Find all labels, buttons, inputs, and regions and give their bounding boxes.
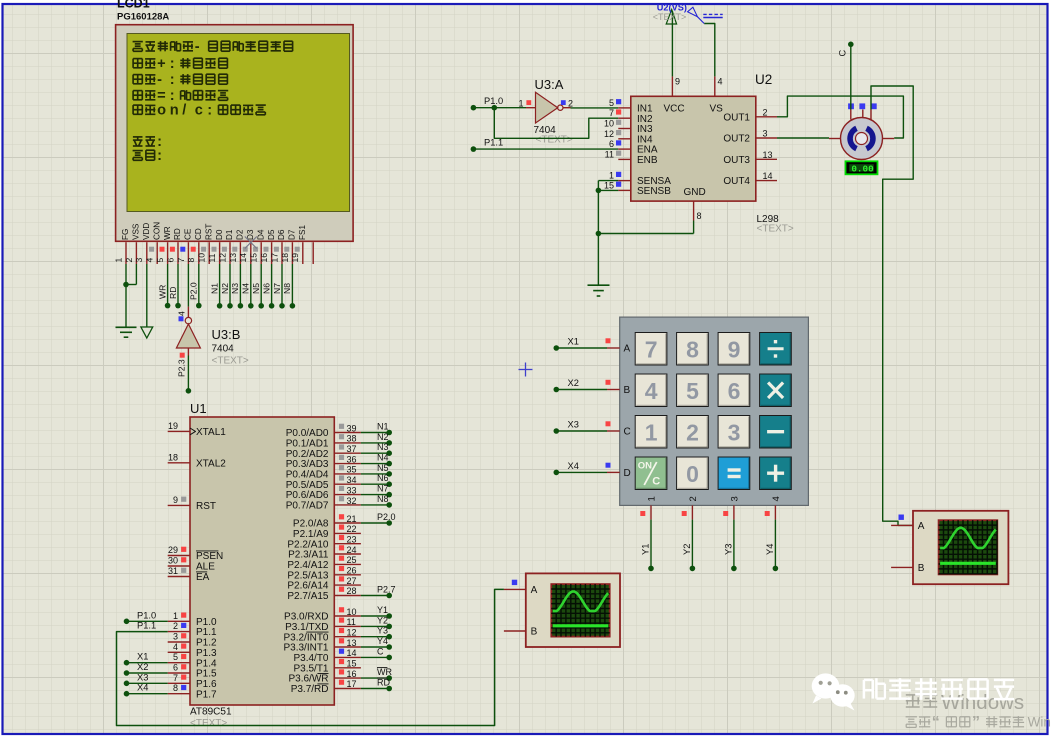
svg-text:WR: WR bbox=[377, 667, 392, 677]
wire X3 net at U1 bbox=[124, 672, 168, 686]
wire VS to power flag bbox=[704, 24, 715, 77]
svg-text::: : bbox=[207, 103, 212, 119]
LCD pin 8 CD bbox=[186, 228, 203, 264]
LCD pin14 no-connect X bbox=[245, 237, 257, 249]
U2 pin 2 OUT1 bbox=[723, 107, 777, 123]
svg-text:+: + bbox=[157, 56, 166, 72]
U1 pin 10 P3.0/RXD bbox=[284, 607, 361, 623]
svg-text:A: A bbox=[918, 521, 925, 532]
LCD pin 12 D1 bbox=[217, 229, 234, 264]
svg-text:X2: X2 bbox=[568, 378, 579, 388]
U3:B pin 4 number bbox=[177, 311, 187, 321]
svg-text:”: ” bbox=[972, 714, 980, 731]
svg-text:2: 2 bbox=[124, 258, 134, 263]
svg-text:6: 6 bbox=[173, 663, 178, 673]
U1 pin 28 P2.7/A15 bbox=[287, 586, 361, 602]
svg-text:Win: Win bbox=[1028, 715, 1051, 730]
svg-text:P2.3/A11: P2.3/A11 bbox=[288, 550, 329, 561]
svg-text:D7: D7 bbox=[288, 229, 297, 240]
svg-text:Y3: Y3 bbox=[377, 626, 388, 636]
svg-text:B: B bbox=[918, 563, 925, 574]
wire X1 net at U1 bbox=[124, 652, 168, 666]
motor floating squares bbox=[848, 103, 877, 109]
U1 pin 19 XTAL1 bbox=[168, 421, 227, 438]
svg-text:VSS: VSS bbox=[132, 223, 141, 240]
U1 pin 25 P2.4/A12 bbox=[287, 555, 361, 571]
svg-text:2: 2 bbox=[688, 496, 699, 501]
svg-text:4: 4 bbox=[645, 378, 658, 404]
svg-text:P3.6/WR: P3.6/WR bbox=[288, 674, 328, 685]
U1 pin 35 P0.4/AD4 bbox=[286, 465, 361, 481]
svg-text:34: 34 bbox=[347, 475, 357, 485]
wire LCD pins1+2 to ground bbox=[123, 264, 136, 327]
svg-text:P3.0/RXD: P3.0/RXD bbox=[284, 612, 328, 623]
svg-text:14: 14 bbox=[763, 171, 773, 181]
svg-text:39: 39 bbox=[347, 423, 357, 433]
svg-text:4: 4 bbox=[173, 642, 178, 652]
svg-text:17: 17 bbox=[269, 253, 279, 263]
U2 pin 6 ENA bbox=[609, 139, 658, 156]
svg-text:P1.1: P1.1 bbox=[484, 138, 503, 148]
svg-text:P1.6: P1.6 bbox=[196, 679, 217, 690]
svg-text:30: 30 bbox=[168, 556, 178, 566]
svg-text:24: 24 bbox=[347, 545, 357, 555]
svg-text:8: 8 bbox=[686, 336, 699, 362]
wire OUT1 to motor right bbox=[777, 96, 903, 138]
svg-text:4: 4 bbox=[145, 258, 155, 263]
svg-text:Y2: Y2 bbox=[682, 544, 692, 555]
U1 pin 23 P2.2/A10 bbox=[287, 535, 361, 551]
svg-text:P2.0: P2.0 bbox=[377, 512, 396, 522]
svg-text:P3.4/T0: P3.4/T0 bbox=[293, 653, 328, 664]
svg-text:6: 6 bbox=[165, 258, 175, 263]
key 4 bbox=[635, 374, 667, 407]
svg-text:29: 29 bbox=[168, 545, 178, 555]
op U3:A 7404 inverter bbox=[526, 92, 571, 123]
wire N1 net from LCD pin11 bbox=[209, 264, 222, 309]
wire P1.0 net at U1 bbox=[124, 610, 168, 624]
svg-text:27: 27 bbox=[347, 576, 357, 586]
svg-text:RST: RST bbox=[204, 224, 213, 240]
key minus bbox=[760, 416, 792, 449]
svg-text:6: 6 bbox=[609, 139, 614, 149]
svg-text:5: 5 bbox=[609, 98, 614, 108]
svg-text::: : bbox=[170, 72, 175, 88]
svg-text:6: 6 bbox=[728, 378, 741, 404]
svg-text:EA: EA bbox=[196, 572, 210, 583]
key 0 bbox=[677, 457, 709, 490]
svg-text:19: 19 bbox=[290, 253, 300, 263]
svg-text:P2.0/A8: P2.0/A8 bbox=[293, 519, 329, 530]
svg-text:X1: X1 bbox=[568, 337, 579, 347]
svg-text:N7: N7 bbox=[272, 283, 282, 294]
oscilloscope 1 bbox=[504, 573, 620, 647]
U1 pin 34 P0.5/AD5 bbox=[286, 475, 361, 491]
svg-text:9: 9 bbox=[728, 336, 741, 362]
LCD pin 14 D3 bbox=[238, 229, 255, 264]
keypad col label 4 bbox=[771, 496, 782, 501]
svg-text:WR: WR bbox=[157, 285, 167, 299]
svg-text:2: 2 bbox=[173, 621, 178, 631]
wire Y1 net at U1 bbox=[361, 605, 392, 619]
U1 labels bbox=[190, 401, 232, 729]
svg-text:P2.4/A12: P2.4/A12 bbox=[287, 560, 329, 571]
key 9 bbox=[718, 333, 750, 366]
svg-text::: : bbox=[157, 148, 162, 164]
svg-text:OUT4: OUT4 bbox=[723, 176, 750, 187]
wire WR net at U1 bbox=[361, 667, 393, 681]
LCD text line1 bbox=[133, 39, 293, 55]
svg-text:1: 1 bbox=[609, 171, 614, 181]
wire P1.0 net to U3:A and IN2 bbox=[471, 96, 619, 138]
svg-text:1: 1 bbox=[645, 419, 658, 445]
svg-text:16: 16 bbox=[347, 669, 357, 679]
driver U2 L298 body bbox=[631, 96, 756, 201]
svg-text:RD: RD bbox=[377, 678, 390, 688]
LCD pin 17 D6 bbox=[269, 229, 286, 264]
svg-text:D5: D5 bbox=[267, 229, 276, 240]
U3:A labels bbox=[534, 77, 573, 146]
ground symbol under LCD bbox=[116, 327, 137, 337]
op U3:B 7404 inverter bbox=[176, 307, 200, 356]
wire N4 net from LCD pin14 bbox=[241, 264, 254, 309]
svg-text:D1: D1 bbox=[225, 229, 234, 240]
wire C net at U1 bbox=[361, 646, 392, 660]
svg-text:RST: RST bbox=[196, 501, 216, 512]
U1 pin 15 P3.5/T1 bbox=[293, 659, 360, 675]
LCD text line4 bbox=[133, 88, 228, 104]
svg-text:-: - bbox=[195, 39, 200, 55]
LCD LCD1 labels bbox=[117, 0, 169, 35]
U2 pin 11 ENB bbox=[605, 149, 658, 166]
svg-text:ENB: ENB bbox=[637, 155, 658, 166]
wire X4 net to keypad row D bbox=[554, 461, 620, 475]
wire N5 net at U1 bbox=[361, 463, 392, 477]
svg-text:c: c bbox=[195, 103, 203, 119]
svg-text:X3: X3 bbox=[568, 420, 579, 430]
svg-text:VCC: VCC bbox=[664, 104, 685, 115]
svg-text:U3:A: U3:A bbox=[535, 77, 564, 92]
svg-text:9: 9 bbox=[173, 495, 178, 505]
svg-text:13: 13 bbox=[347, 638, 357, 648]
svg-text:WR: WR bbox=[163, 226, 172, 240]
svg-text:RD: RD bbox=[168, 287, 178, 299]
svg-text:14: 14 bbox=[347, 648, 357, 658]
svg-text:32: 32 bbox=[347, 496, 357, 506]
LCD pin nc bbox=[312, 242, 314, 264]
wire N8 net at U1 bbox=[361, 494, 392, 508]
U1 pin 16 P3.6/WR bbox=[288, 669, 360, 685]
svg-text:12: 12 bbox=[217, 253, 227, 263]
svg-text:P2.6/A14: P2.6/A14 bbox=[287, 581, 329, 592]
svg-text:3: 3 bbox=[729, 496, 740, 501]
svg-text:B: B bbox=[624, 385, 631, 396]
wire X1 net to keypad row A bbox=[554, 337, 620, 351]
U2 pin 7 IN2 bbox=[609, 108, 653, 125]
svg-text:C: C bbox=[377, 646, 384, 656]
svg-text:U1: U1 bbox=[190, 401, 207, 416]
keypad col label 2 bbox=[688, 496, 699, 501]
svg-text:N4: N4 bbox=[377, 453, 389, 463]
U2 pin 4 VS bbox=[710, 76, 724, 114]
oscilloscope 2 bbox=[891, 511, 1008, 584]
svg-text:10: 10 bbox=[347, 607, 357, 617]
U2 pin 12 IN4 bbox=[604, 129, 653, 146]
U2 pin 8 GND bbox=[684, 187, 706, 221]
keypad row label C bbox=[624, 427, 631, 438]
input terminal triangle bbox=[141, 327, 153, 338]
ground symbol under L298 bbox=[588, 285, 610, 296]
LCD pin 2 VSS bbox=[124, 223, 141, 264]
wire N3 net at U1 bbox=[361, 442, 392, 456]
svg-text:VS: VS bbox=[710, 104, 724, 115]
svg-text:19: 19 bbox=[168, 421, 178, 431]
svg-text:P1.3: P1.3 bbox=[196, 648, 217, 659]
U1 pin 31 EA bbox=[168, 566, 210, 583]
svg-text:15: 15 bbox=[249, 253, 259, 263]
LCD text line2 bbox=[133, 56, 227, 72]
svg-text:<TEXT>: <TEXT> bbox=[190, 718, 227, 729]
svg-text:XTAL2: XTAL2 bbox=[196, 458, 226, 469]
svg-text:FS1: FS1 bbox=[298, 225, 307, 240]
svg-text:Y1: Y1 bbox=[377, 605, 388, 615]
LCD pin 5 WR bbox=[155, 224, 172, 264]
U1 pin 38 P0.1/AD1 bbox=[286, 434, 361, 450]
power terminal U2(VS) bbox=[653, 2, 687, 24]
svg-text:P0.0/AD0: P0.0/AD0 bbox=[286, 428, 329, 439]
svg-text:A: A bbox=[531, 585, 538, 596]
svg-text:PSEN: PSEN bbox=[196, 551, 223, 562]
wire N2 net from LCD pin12 bbox=[220, 264, 233, 309]
svg-text:7: 7 bbox=[609, 108, 614, 118]
svg-text:13: 13 bbox=[763, 150, 773, 160]
svg-text:38: 38 bbox=[347, 434, 357, 444]
svg-text:<TEXT>: <TEXT> bbox=[536, 135, 573, 146]
svg-text:OUT1: OUT1 bbox=[723, 112, 750, 123]
svg-text:<TEXT>: <TEXT> bbox=[212, 356, 249, 367]
svg-text:P0.2/AD2: P0.2/AD2 bbox=[286, 449, 329, 460]
svg-text:7404: 7404 bbox=[212, 344, 235, 355]
LCD pin 6 RD bbox=[165, 224, 182, 264]
U1 pin 11 P3.1/TXD bbox=[285, 617, 361, 633]
wire Y3 net from keypad col 3 bbox=[723, 505, 737, 571]
svg-text:8: 8 bbox=[697, 211, 702, 221]
svg-text:Y3: Y3 bbox=[723, 544, 733, 555]
U2 pin 1 SENSA bbox=[609, 171, 671, 188]
svg-text:X1: X1 bbox=[137, 652, 148, 662]
U2 pin 15 SENSB bbox=[604, 180, 671, 197]
svg-text:D2: D2 bbox=[236, 229, 245, 240]
key 5 bbox=[677, 374, 709, 407]
svg-text:N8: N8 bbox=[377, 494, 389, 504]
LCD text line3 bbox=[133, 72, 227, 88]
wire C net to motor top bbox=[838, 42, 854, 110]
svg-text:Y1: Y1 bbox=[640, 544, 650, 555]
wire X2 net to keypad row B bbox=[554, 378, 620, 392]
U1 pin 7 P1.6 bbox=[168, 673, 217, 690]
U1 pin 30 ALE bbox=[168, 556, 216, 573]
motor brushes bbox=[850, 128, 873, 148]
svg-text:P1.1: P1.1 bbox=[137, 621, 156, 631]
svg-text:X4: X4 bbox=[137, 683, 148, 693]
windows activation watermark line1 bbox=[906, 691, 1024, 714]
key multiply bbox=[760, 374, 792, 407]
svg-text:U3:B: U3:B bbox=[212, 327, 241, 342]
svg-text:“: “ bbox=[932, 714, 940, 731]
svg-text:2: 2 bbox=[763, 107, 768, 117]
LCD pin 19 FS1 bbox=[290, 225, 307, 264]
motor shaft bbox=[856, 133, 868, 145]
svg-text:ON: ON bbox=[638, 461, 652, 472]
LCD text line5 bbox=[133, 103, 266, 119]
key 1 bbox=[635, 416, 667, 449]
origin marker bbox=[519, 363, 533, 377]
svg-text:18: 18 bbox=[280, 253, 290, 263]
svg-text:22: 22 bbox=[347, 524, 357, 534]
svg-text:C: C bbox=[838, 50, 848, 57]
wire VCC to power terminal bbox=[671, 11, 673, 76]
LCD pin 11 D0 bbox=[207, 229, 224, 264]
svg-text:N8: N8 bbox=[282, 283, 292, 294]
svg-text:CD: CD bbox=[194, 228, 203, 240]
LCD LCD1 body bbox=[116, 25, 354, 242]
wire Y4 net at U1 bbox=[361, 636, 392, 650]
keypad col label 3 bbox=[729, 496, 740, 501]
svg-text::: : bbox=[170, 56, 175, 72]
svg-text:4: 4 bbox=[718, 77, 723, 87]
svg-text:23: 23 bbox=[347, 535, 357, 545]
svg-text:5: 5 bbox=[155, 258, 165, 263]
wire Y2 net from keypad col 2 bbox=[682, 505, 696, 571]
U2 pin 9 VCC bbox=[664, 76, 685, 114]
svg-text:7: 7 bbox=[645, 336, 658, 362]
svg-text:B: B bbox=[531, 627, 538, 638]
U1 pin 29 PSEN bbox=[168, 545, 224, 562]
U1 pin 22 P2.1/A9 bbox=[293, 524, 361, 540]
wire N6 net at U1 bbox=[361, 473, 392, 487]
wire LCD pin7 to U3:B output bbox=[187, 264, 189, 307]
svg-text:<TEXT>: <TEXT> bbox=[757, 224, 794, 235]
svg-text:PG160128A: PG160128A bbox=[117, 12, 169, 23]
svg-text:18: 18 bbox=[168, 452, 178, 462]
svg-text:21: 21 bbox=[347, 514, 357, 524]
svg-text:Y4: Y4 bbox=[377, 636, 388, 646]
svg-text:OUT2: OUT2 bbox=[723, 134, 750, 145]
U3:B labels bbox=[212, 327, 249, 367]
keypad row label B bbox=[624, 385, 631, 396]
wire N7 net from LCD pin17 bbox=[272, 264, 285, 309]
svg-text:3: 3 bbox=[728, 419, 741, 445]
wire motor to oscilloscope2 A bbox=[871, 86, 913, 525]
U2 pin 3 OUT2 bbox=[723, 129, 777, 145]
wire Y3 net at U1 bbox=[361, 626, 392, 640]
svg-text:N5: N5 bbox=[377, 463, 389, 473]
U1 pin 8 P1.7 bbox=[168, 683, 217, 700]
svg-text:CON: CON bbox=[152, 222, 161, 240]
svg-text:FG: FG bbox=[121, 229, 130, 240]
U1 pin 14 P3.4/T0 bbox=[293, 648, 360, 664]
wire U3:A out to L298 IN1 bbox=[571, 107, 619, 109]
mcu U1 AT89C51 body bbox=[190, 417, 334, 705]
svg-text:D4: D4 bbox=[256, 229, 265, 240]
svg-text:CE: CE bbox=[184, 228, 193, 240]
svg-text:ALE: ALE bbox=[196, 562, 215, 573]
wire X3 net to keypad row C bbox=[554, 420, 620, 434]
U1 pin 18 XTAL2 bbox=[168, 452, 227, 469]
svg-text:P1.0: P1.0 bbox=[484, 96, 503, 106]
U1 pin 3 P1.2 bbox=[168, 632, 217, 649]
svg-text:36: 36 bbox=[347, 454, 357, 464]
svg-text:N6: N6 bbox=[261, 283, 271, 294]
svg-text:37: 37 bbox=[347, 444, 357, 454]
wire N5 net from LCD pin15 bbox=[251, 264, 264, 309]
svg-text:11: 11 bbox=[347, 617, 356, 627]
svg-text:P0.4/AD4: P0.4/AD4 bbox=[286, 470, 329, 481]
svg-text:P1.1: P1.1 bbox=[196, 627, 217, 638]
svg-text:OUT3: OUT3 bbox=[723, 155, 750, 166]
svg-text:/: / bbox=[182, 103, 186, 119]
U1 pin 4 P1.3 bbox=[168, 642, 217, 659]
svg-text:P1.0: P1.0 bbox=[137, 610, 156, 620]
wire P2.0 net at U1 bbox=[361, 512, 396, 526]
svg-text:1: 1 bbox=[173, 611, 178, 621]
wire X2 net at U1 bbox=[124, 662, 168, 676]
svg-text:C: C bbox=[624, 427, 631, 438]
svg-text:P0.6/AD6: P0.6/AD6 bbox=[286, 490, 329, 501]
wire P2.0 net from LCD pin8 bbox=[189, 264, 202, 308]
svg-text:C: C bbox=[652, 476, 660, 488]
U2 pin 14 OUT4 bbox=[723, 171, 777, 187]
LCD pin 4 CON bbox=[145, 222, 162, 264]
U1 pin 12 P3.2/INT0 bbox=[283, 628, 360, 644]
LCD pin 13 D2 bbox=[228, 229, 245, 264]
svg-text:X3: X3 bbox=[137, 672, 148, 682]
svg-text:7: 7 bbox=[176, 258, 186, 263]
svg-text:P2.0: P2.0 bbox=[189, 282, 199, 300]
svg-text:P3.7/RD: P3.7/RD bbox=[291, 684, 329, 695]
power flag symbol bbox=[688, 7, 723, 23]
U1 pin 33 P0.6/AD6 bbox=[286, 485, 361, 501]
LCD text line6 bbox=[133, 134, 162, 150]
U1 pin 27 P2.6/A14 bbox=[287, 576, 361, 592]
svg-text:10: 10 bbox=[604, 119, 614, 129]
svg-text:o: o bbox=[157, 103, 166, 119]
svg-text:D6: D6 bbox=[277, 229, 286, 240]
svg-text:2: 2 bbox=[686, 419, 699, 445]
svg-text:n: n bbox=[170, 103, 179, 119]
key 6 bbox=[718, 374, 750, 407]
LCD pin 18 D7 bbox=[280, 229, 297, 264]
key 3 bbox=[718, 416, 750, 449]
U2 pin 13 OUT3 bbox=[723, 150, 777, 166]
svg-text:RD: RD bbox=[173, 228, 182, 240]
wire WR net from LCD pin5 bbox=[157, 264, 170, 308]
wire P1.1 net from U1 to oscilloscope A bbox=[117, 589, 504, 725]
svg-text:X2: X2 bbox=[137, 662, 148, 672]
wire N2 net at U1 bbox=[361, 432, 392, 446]
svg-text:3: 3 bbox=[763, 129, 768, 139]
svg-text:12: 12 bbox=[347, 628, 357, 638]
U2 pin 5 IN1 bbox=[609, 98, 653, 115]
svg-text:D0: D0 bbox=[215, 229, 224, 240]
svg-text:P0.7/AD7: P0.7/AD7 bbox=[286, 501, 329, 512]
U1 pin 24 P2.3/A11 bbox=[288, 545, 361, 561]
svg-text:P2.3: P2.3 bbox=[177, 359, 187, 377]
wire X4 net at U1 bbox=[124, 683, 168, 697]
svg-text:P3.3/INT1: P3.3/INT1 bbox=[283, 643, 328, 654]
keypad body bbox=[620, 317, 809, 505]
svg-text:9: 9 bbox=[675, 77, 680, 87]
